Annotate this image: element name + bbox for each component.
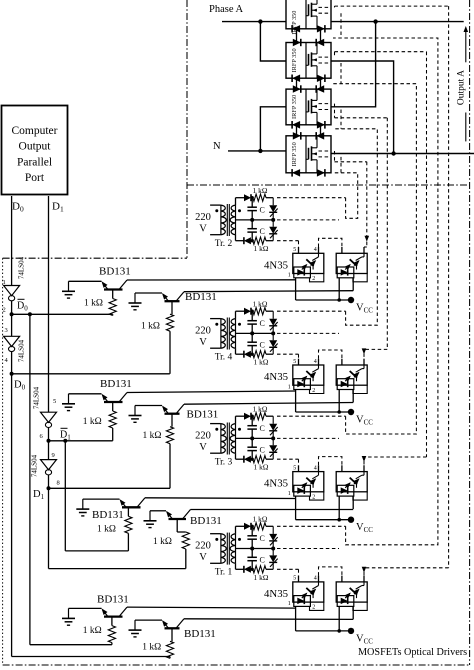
pin 2 label U3a xyxy=(312,494,315,500)
svg-text:4: 4 xyxy=(314,576,317,582)
pin 2 label U2a xyxy=(312,388,315,394)
wire QD2 base xyxy=(171,628,173,641)
svg-text:1 kΩ: 1 kΩ xyxy=(254,358,269,367)
4N35 body U2b xyxy=(336,365,367,385)
wire top rail to zener (stage 2) xyxy=(266,310,273,312)
Vcc label (stage 3) xyxy=(356,522,373,534)
junction node D0 (restored) xyxy=(10,372,14,376)
svg-text:1 kΩ: 1 kΩ xyxy=(253,186,268,195)
Vcc rail wire (stage 2) xyxy=(296,411,351,413)
4N35 body U4b xyxy=(336,582,367,602)
svg-text:220: 220 xyxy=(195,431,211,442)
4N35 light arrows U1a xyxy=(301,260,316,270)
4N35 pin 4 stub U3b xyxy=(363,465,365,471)
dashed bottom rail to pin5 (stage 4) xyxy=(277,569,299,575)
pin 5 label U3a xyxy=(293,465,296,471)
svg-text:Tr. 1: Tr. 1 xyxy=(215,568,233,578)
pin 4 label U2a xyxy=(314,359,317,365)
4N35 LED diode U4a xyxy=(297,598,304,605)
transformer Tr. 1 xyxy=(210,533,241,565)
svg-text:BD131: BD131 xyxy=(97,594,129,606)
4N35 LED sub-box U2b xyxy=(337,379,354,390)
diode rectifier top (stage 1) xyxy=(244,194,251,201)
resistor RA2 1k xyxy=(166,314,173,331)
label 1 kOhm bottom (stage 2) xyxy=(254,358,269,367)
4N35 body U4a xyxy=(293,582,324,602)
figure region border: horizontal dash-dot below computer block xyxy=(3,257,187,259)
4N35 pin 2 step wire U3a xyxy=(310,492,324,500)
zener upper (stage 4) xyxy=(269,526,278,548)
4N35 LED sub-box U2a xyxy=(294,379,311,390)
wire RD2 to input xyxy=(169,657,171,659)
wire M2 right to output xyxy=(331,61,394,154)
svg-text:220: 220 xyxy=(195,212,211,223)
4N35 pin 4 stub U1b xyxy=(363,247,365,253)
junction bottom rail (stage 2) xyxy=(251,353,254,356)
M3 gate dashed tap xyxy=(319,103,332,105)
RA2 label xyxy=(141,322,160,332)
wire diode to R (stage 1) xyxy=(251,197,253,199)
wire QB1 emitter xyxy=(69,393,102,395)
capacitor C upper (stage 1) xyxy=(247,198,257,220)
junction mid rail at zener (stage 3) xyxy=(271,436,275,440)
label 1 kOhm bottom (stage 4) xyxy=(254,573,269,582)
transformer Tr. 4 xyxy=(210,318,241,350)
junction mid rail at cap (stage 2) xyxy=(250,331,254,335)
transistor QB2 BD131 xyxy=(162,404,184,414)
4N35 pin 4 stub U2a xyxy=(318,359,320,365)
resistor 1k top rail (stage 1) xyxy=(253,194,266,201)
label Tr. 4 xyxy=(215,353,233,363)
MOSFET symbol M4 xyxy=(306,136,317,173)
ground QA1 xyxy=(62,281,75,298)
resistor RB2 1k xyxy=(166,427,173,444)
wire center tap mid rail (stage 3) xyxy=(236,437,274,439)
wire top rail to zener (stage 4) xyxy=(266,525,273,527)
QD1 label BD131 xyxy=(97,594,129,606)
wire D1 vertical feed down to driver C xyxy=(48,488,50,568)
figure region border: bottom dash-dot border xyxy=(3,664,470,666)
junction mid rail at cap (stage 4) xyxy=(250,547,254,551)
dashed gate feed with arrow (stage 2) xyxy=(335,118,388,359)
svg-text:Output: Output xyxy=(19,141,52,153)
wire D0 from port xyxy=(11,196,13,286)
4N35 optocoupler pair label (stage 2) xyxy=(264,371,288,383)
diode pair on M1 bottom edge xyxy=(292,25,325,32)
wire top rail to zener (stage 3) xyxy=(266,415,273,417)
node D1 restored label xyxy=(33,489,45,501)
4N35 LED diode U2a xyxy=(297,381,304,387)
svg-text:4: 4 xyxy=(314,247,317,253)
4N35 pin 5 stub U1a xyxy=(298,247,300,253)
svg-text:Parallel: Parallel xyxy=(17,156,52,168)
label Output A xyxy=(457,70,467,105)
diode pair on M3 bottom edge xyxy=(292,121,325,129)
4N35 body U1b xyxy=(336,253,367,273)
4N35 phototransistor U1b xyxy=(350,253,364,269)
label 220 V (stage 2) xyxy=(195,326,211,349)
svg-text:Phase A: Phase A xyxy=(209,4,244,15)
junction Vcc (stage 1) xyxy=(337,298,341,302)
wire bottom rail to zener (stage 2) xyxy=(266,353,273,355)
label C upper (stage 4) xyxy=(260,534,265,543)
MOSFET symbol M1 xyxy=(306,0,317,29)
wire QC1 base xyxy=(127,507,129,516)
wire pin1 stub U3a to Vcc rail xyxy=(295,496,297,520)
node D0bar label xyxy=(17,299,28,312)
wire RC2 to input xyxy=(185,549,187,569)
svg-text:1 kΩ: 1 kΩ xyxy=(253,299,268,308)
junction bottom rail (stage 4) xyxy=(251,568,254,571)
svg-text:BD131: BD131 xyxy=(190,515,222,527)
4N35 phototransistor U2b xyxy=(350,365,364,381)
svg-text:BD131: BD131 xyxy=(185,291,217,303)
svg-text:BD131: BD131 xyxy=(99,266,131,278)
capacitor C lower (stage 2) xyxy=(247,333,257,354)
svg-text:C: C xyxy=(260,206,265,215)
dashed gate feed with arrow (stage 1) xyxy=(335,162,370,247)
RA1 label xyxy=(84,299,103,309)
junction node D1 (restored) xyxy=(47,486,51,490)
inverter U1A pin 1 label xyxy=(3,279,6,286)
wire U1C output to node D1bar xyxy=(48,428,50,441)
RD2 label xyxy=(142,643,161,653)
wire QA1 emitter xyxy=(69,280,102,282)
svg-text:Tr. 4: Tr. 4 xyxy=(215,353,233,363)
zener lower (stage 1) xyxy=(269,220,278,241)
Vcc terminal (stage 2) xyxy=(348,409,354,415)
wire pin1 stub U1a to Vcc rail xyxy=(295,278,297,300)
svg-text:1 kΩ: 1 kΩ xyxy=(153,537,172,547)
ground QD1 xyxy=(62,608,75,625)
resistor RA1 1k xyxy=(109,299,116,316)
resistor RD2 1k xyxy=(166,641,173,658)
junction Vcc (stage 4) xyxy=(337,629,341,633)
4N35 light arrows U2b xyxy=(345,372,360,382)
label C lower (stage 4) xyxy=(260,556,265,565)
wire D1 feed to R2 of driver C xyxy=(49,568,186,570)
label Tr. 2 xyxy=(215,239,233,249)
dashed mid rail (stage 1) xyxy=(277,219,339,221)
diode rectifier top (stage 3) xyxy=(244,413,251,420)
wire D0bar feed to R1 of driver D xyxy=(30,644,112,646)
junction mid rail at zener (stage 2) xyxy=(271,331,275,335)
Vcc terminal (stage 4) xyxy=(348,628,354,634)
QC2 label BD131 xyxy=(190,515,222,527)
4N35 optocoupler pair label (stage 3) xyxy=(264,478,288,490)
wire M2-M3 interconnect right xyxy=(320,78,322,89)
wire M3-M4 interconnect right xyxy=(320,125,322,136)
dashed mid rail (stage 4) xyxy=(277,548,339,550)
zener lower (stage 3) xyxy=(269,438,278,459)
dashed bridge pin4-pin5 (stage 2) xyxy=(319,350,342,359)
svg-text:4N35: 4N35 xyxy=(264,588,288,600)
svg-text:74LS04: 74LS04 xyxy=(31,454,39,477)
label 1 kOhm bottom (stage 3) xyxy=(254,463,269,472)
MOSFET symbol M3 xyxy=(306,89,317,125)
junction D1bar branch xyxy=(63,439,67,443)
pin 4 label U1a xyxy=(314,247,317,253)
wire U1B output to node D0 xyxy=(11,352,13,374)
svg-text:5: 5 xyxy=(293,465,296,471)
svg-text:N: N xyxy=(213,141,221,152)
dashed connector gate tap box M1 xyxy=(334,6,336,7)
svg-text:9: 9 xyxy=(52,452,55,459)
wire QA2 base xyxy=(171,301,173,314)
pin 1 label U2a xyxy=(288,384,291,390)
Output A arrow xyxy=(464,26,469,62)
4N35 LED diode U1a xyxy=(297,269,304,276)
QB1 label BD131 xyxy=(100,378,132,390)
computer output parallel port box xyxy=(2,106,68,195)
diode pair on M4 top edge xyxy=(293,132,324,140)
pin 4 label U4a xyxy=(314,576,317,582)
ground QC2 xyxy=(144,511,157,528)
svg-text:BD131: BD131 xyxy=(100,378,132,390)
svg-text:1 kΩ: 1 kΩ xyxy=(142,643,161,653)
4N35 phototransistor U4a xyxy=(306,582,318,598)
M3 label IRFP 350 xyxy=(291,95,298,119)
capacitor C upper (stage 3) xyxy=(247,416,257,438)
4N35 pin 5 stub U2a xyxy=(298,359,300,365)
M3 internal divider xyxy=(305,89,307,125)
RC1 label xyxy=(97,525,116,535)
wire M3 right to output top xyxy=(331,22,376,107)
svg-text:MOSFETs Optical Drivers: MOSFETs Optical Drivers xyxy=(358,647,467,658)
diode rectifier top (stage 4) xyxy=(244,523,251,530)
Vcc rail wire (stage 4) xyxy=(296,630,351,632)
dashed top-rail wrap (stage 3) xyxy=(333,84,416,434)
dashed connector source tap box M2 xyxy=(340,63,342,84)
diode rectifier bottom (stage 4) xyxy=(244,566,253,573)
pin 2 label U1a xyxy=(312,276,315,282)
transistor QB1 BD131 xyxy=(102,393,128,403)
4N35 LED sub-box U4b xyxy=(337,596,354,607)
wire QC1 emitter xyxy=(83,498,120,500)
wire RD1 to input xyxy=(111,643,113,645)
M3 source dashed tap xyxy=(319,109,332,111)
svg-text:4: 4 xyxy=(314,359,317,365)
junction bottom rail (stage 3) xyxy=(251,458,254,461)
svg-text:C: C xyxy=(260,319,265,328)
junction mid rail at cap (stage 1) xyxy=(250,218,254,222)
svg-text:2: 2 xyxy=(312,605,315,611)
wire QC2 base xyxy=(177,519,186,532)
figure region border: right dash-dot border xyxy=(469,0,471,665)
wire bottom rail to zener (stage 1) xyxy=(266,240,273,242)
transistor QC1 BD131 xyxy=(120,498,146,508)
dashed gate feed with arrow (stage 4) xyxy=(335,6,449,576)
svg-text:1 kΩ: 1 kΩ xyxy=(97,525,116,535)
svg-text:IRFP 350: IRFP 350 xyxy=(291,95,298,119)
4N35 light arrows U4a xyxy=(301,589,316,599)
inverter U1B pin 4 label xyxy=(5,357,9,364)
zener lower (stage 2) xyxy=(269,333,278,354)
diode rectifier bottom (stage 3) xyxy=(244,456,253,463)
M4 label IRFP 350 xyxy=(291,142,298,166)
RC2 label xyxy=(153,537,172,547)
Vcc label (stage 4) xyxy=(356,633,373,645)
wire QA1 collector to optocoupler xyxy=(127,279,296,281)
transistor QD1 BD131 xyxy=(102,607,128,617)
svg-text:220: 220 xyxy=(195,541,211,552)
ground QB1 xyxy=(62,394,75,411)
Output A lower tick xyxy=(465,113,467,142)
resistor RC1 1k xyxy=(125,516,132,533)
svg-text:C: C xyxy=(260,556,265,565)
transistor QA2 BD131 xyxy=(162,292,184,302)
4N35 phototransistor U3a xyxy=(306,472,318,488)
Vcc terminal (stage 1) xyxy=(348,297,354,303)
junction Vcc (stage 3) xyxy=(337,518,341,522)
wire M2-M3 interconnect left xyxy=(296,78,298,89)
svg-text:V: V xyxy=(199,552,207,563)
resistor 1k bottom rail (stage 3) xyxy=(253,456,266,463)
svg-text:1 kΩ: 1 kΩ xyxy=(84,299,103,309)
label 1 kOhm top (stage 1) xyxy=(253,186,268,195)
junction Vcc (stage 2) xyxy=(337,410,341,414)
wire D1bar feed to R1 of driver C xyxy=(65,550,128,552)
wire QB1 collector to optocoupler xyxy=(127,391,296,393)
inverter U1D pin 8 label xyxy=(57,480,60,487)
svg-text:BD131: BD131 xyxy=(92,509,124,521)
4N35 pin 4 stub U4b xyxy=(363,576,365,582)
label 220 V (stage 1) xyxy=(195,212,211,235)
dashed gate feed with arrow (stage 3) xyxy=(335,52,427,466)
M1 source dashed tap xyxy=(319,12,332,14)
svg-text:2: 2 xyxy=(312,494,315,500)
Vcc rail wire (stage 1) xyxy=(296,299,351,301)
zener lower (stage 4) xyxy=(269,549,278,570)
svg-text:IRFP 350: IRFP 350 xyxy=(291,142,298,166)
junction top rail (stage 2) xyxy=(251,310,254,313)
wire U1A output to node D0bar xyxy=(11,301,13,315)
svg-text:2: 2 xyxy=(312,388,315,394)
M2 source dashed tap xyxy=(319,62,332,64)
label C lower (stage 1) xyxy=(260,227,265,236)
dashed bottom rail to pin5 (stage 3) xyxy=(277,459,299,465)
inverter U1D 74LS04 xyxy=(31,454,57,477)
wire pin1 stub U1b to Vcc rail xyxy=(338,278,340,300)
inverter U1B 74LS04 xyxy=(4,336,26,362)
wire pin2 stub U4b to driver xyxy=(352,606,354,619)
wire pin1 stub U4b to Vcc rail xyxy=(338,606,340,631)
pin 2 label U4a xyxy=(312,605,315,611)
4N35 LED diode U3b xyxy=(341,487,348,494)
resistor RB1 1k xyxy=(109,411,116,428)
4N35 phototransistor U1a xyxy=(306,253,318,269)
junction Phase A xyxy=(258,19,262,23)
pin 1 label U4a xyxy=(288,601,291,607)
4N35 phototransistor U3b xyxy=(350,472,364,488)
svg-text:1: 1 xyxy=(288,273,291,279)
svg-text:1 kΩ: 1 kΩ xyxy=(254,573,269,582)
zener upper (stage 1) xyxy=(269,198,278,220)
svg-text:2: 2 xyxy=(312,276,315,282)
svg-text:4: 4 xyxy=(314,465,317,471)
node D0 label xyxy=(12,201,24,214)
svg-text:BD131: BD131 xyxy=(184,628,216,640)
QB2 label BD131 xyxy=(187,409,219,421)
QD2 label BD131 xyxy=(184,628,216,640)
wire secondary top lead (stage 4) xyxy=(236,526,245,533)
4N35 pin 4 stub U2b xyxy=(363,359,365,365)
Vcc terminal (stage 3) xyxy=(348,517,354,523)
4N35 optocoupler pair label (stage 1) xyxy=(264,259,288,271)
transistor QD2 BD131 xyxy=(162,619,184,629)
ground QA2 xyxy=(129,293,142,310)
svg-text:V: V xyxy=(199,337,207,348)
svg-text:4N35: 4N35 xyxy=(264,259,288,271)
node D0 restored label xyxy=(14,380,26,392)
capacitor C lower (stage 4) xyxy=(247,549,257,570)
resistor RD1 1k xyxy=(108,626,115,643)
svg-text:74LS04: 74LS04 xyxy=(33,386,41,409)
4N35 pin 5 stub U2b xyxy=(341,359,343,365)
wire QB2 base xyxy=(171,414,173,427)
figure region border: left dotted border xyxy=(2,258,4,665)
4N35 phototransistor U4b xyxy=(350,582,364,598)
wire D1 feed horizontal to R2 of driver B xyxy=(49,487,171,489)
wire bottom rail to zener (stage 4) xyxy=(266,568,273,570)
4N35 LED sub-box U3b xyxy=(337,485,354,496)
label Tr. 1 xyxy=(215,568,233,578)
svg-text:BD131: BD131 xyxy=(187,409,219,421)
M1 label IRFP 350 xyxy=(291,11,298,35)
4N35 light arrows U1b xyxy=(345,260,360,270)
wire QB1 base xyxy=(112,402,114,411)
4N35 pin 5 stub U3b xyxy=(341,465,343,471)
wire QD2 emitter xyxy=(135,619,162,621)
svg-text:5: 5 xyxy=(53,398,56,405)
dashed top rail (stage 4) xyxy=(277,525,346,527)
dashed connector gate tap box M2 xyxy=(334,52,336,57)
transformer Tr. 3 xyxy=(210,423,241,455)
wire pin2 stub U3b to driver xyxy=(352,496,354,509)
svg-text:1 kΩ: 1 kΩ xyxy=(83,417,102,427)
capacitor C upper (stage 2) xyxy=(247,311,257,333)
diode pair on M3 top edge xyxy=(293,85,324,93)
svg-text:Tr. 3: Tr. 3 xyxy=(215,458,233,468)
label 220 V (stage 4) xyxy=(195,541,211,564)
dashed top-rail wrap (stage 4) xyxy=(333,38,438,545)
capacitor C upper (stage 4) xyxy=(247,526,257,548)
dashed connector gate tap box M3 xyxy=(334,104,336,118)
label C lower (stage 3) xyxy=(260,446,265,455)
junction output xyxy=(391,151,395,155)
transformer Tr. 2 xyxy=(210,204,241,236)
dashed connector gate tap box M4 xyxy=(334,151,336,162)
wire U1D output to node D1 xyxy=(48,475,50,488)
4N35 LED diode U4b xyxy=(341,598,348,605)
diode rectifier top (stage 2) xyxy=(244,308,251,315)
wire diode to R (stage 2) xyxy=(251,310,253,312)
wire D0 feed horizontal to R2 of driver A xyxy=(12,373,170,375)
M4 internal divider xyxy=(305,136,307,173)
pin 5 label U4a xyxy=(293,576,296,582)
inverter U1C 74LS04 xyxy=(33,386,57,427)
wire M1 right to output top xyxy=(331,21,464,23)
M4 source dashed tap xyxy=(319,156,332,158)
4N35 LED sub-box U3a xyxy=(294,485,311,496)
wire M1-M2 interconnect right xyxy=(320,29,322,43)
inverter U1C pin 6 label xyxy=(40,433,44,440)
pin 1 label U3a xyxy=(288,491,291,497)
inverter U1A 74LS04 xyxy=(4,256,26,300)
MOSFET module box M4 xyxy=(286,136,331,173)
resistor 1k top rail (stage 2) xyxy=(253,308,266,315)
wire M3-M4 interconnect left xyxy=(296,125,298,136)
